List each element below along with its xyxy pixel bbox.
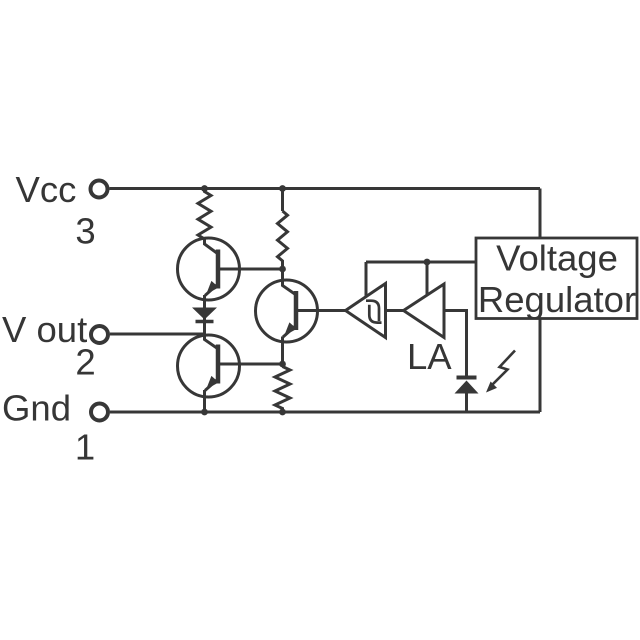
junction node Q2 base / Q3 emitter / R3 bbox=[279, 361, 286, 368]
wire U1 power tap bbox=[365, 262, 368, 298]
svg-text:1: 1 bbox=[75, 427, 95, 468]
wire regulator bottom to Gnd rail bbox=[539, 318, 542, 413]
op-amp U1 (Schmitt trigger stage) bbox=[346, 284, 386, 338]
wire Q1 base lead bbox=[218, 268, 283, 271]
wire Gnd rail bbox=[110, 411, 540, 414]
wire Q2 emitter to Gnd bbox=[203, 390, 206, 412]
svg-text:2: 2 bbox=[75, 342, 95, 383]
transistor Q3 bbox=[256, 280, 318, 342]
junction node Q1 base / R2 / Q3 bbox=[279, 266, 286, 273]
svg-text:LA: LA bbox=[407, 336, 452, 377]
wire Q3 emitter to node bbox=[281, 337, 284, 367]
wire U2 input to photodiode bbox=[444, 311, 467, 378]
wire R2 to Q3 collector bbox=[281, 261, 284, 281]
wire U2 power tap bbox=[426, 262, 429, 295]
svg-text:Regulator: Regulator bbox=[478, 279, 636, 320]
photodiode PD1 bbox=[455, 378, 479, 394]
svg-text:3: 3 bbox=[75, 211, 95, 252]
svg-text:Vcc: Vcc bbox=[16, 169, 77, 210]
transistor Q2 bbox=[178, 335, 240, 397]
wire Q1 emitter to diode and V out node and Q2 bbox=[203, 295, 206, 337]
wire photodiode to Gnd rail bbox=[465, 394, 468, 413]
wire Q3 base to amplifier input bbox=[296, 309, 346, 312]
transistor Q1 bbox=[178, 238, 240, 300]
resistor R1 bbox=[198, 189, 211, 240]
wire U1 output to U2 input bbox=[386, 309, 404, 312]
diode D1 bbox=[192, 308, 217, 322]
wire V out bbox=[110, 333, 205, 336]
wire Vcc to R2 bbox=[281, 189, 284, 212]
junction node R3 / Gnd bbox=[279, 409, 286, 416]
op-amp U2 (amplifier stage) bbox=[404, 284, 445, 338]
wire Vcc rail bbox=[110, 187, 541, 190]
terminal pin 1 (Gnd) bbox=[91, 404, 108, 421]
light arrow (incident light symbol) bbox=[486, 351, 515, 393]
terminal pin 3 (Vcc) bbox=[91, 181, 108, 198]
terminal pin 2 (V out) bbox=[91, 326, 108, 343]
wire Vcc rail to regulator top bbox=[539, 189, 542, 240]
resistor R3 bbox=[275, 367, 290, 413]
wire Q2 base lead bbox=[218, 363, 283, 366]
voltage regulator U3 box bbox=[476, 238, 637, 319]
svg-text:Gnd: Gnd bbox=[2, 388, 71, 429]
wire LA power rail bbox=[366, 261, 476, 264]
junction node Vcc/R1 bbox=[201, 185, 208, 192]
resistor R2 bbox=[278, 211, 288, 269]
junction node U2 power tap bbox=[424, 259, 431, 266]
junction node Q2 emitter / Gnd bbox=[201, 409, 208, 416]
svg-text:Voltage: Voltage bbox=[496, 238, 618, 279]
junction node Vcc/R2 bbox=[279, 185, 286, 192]
